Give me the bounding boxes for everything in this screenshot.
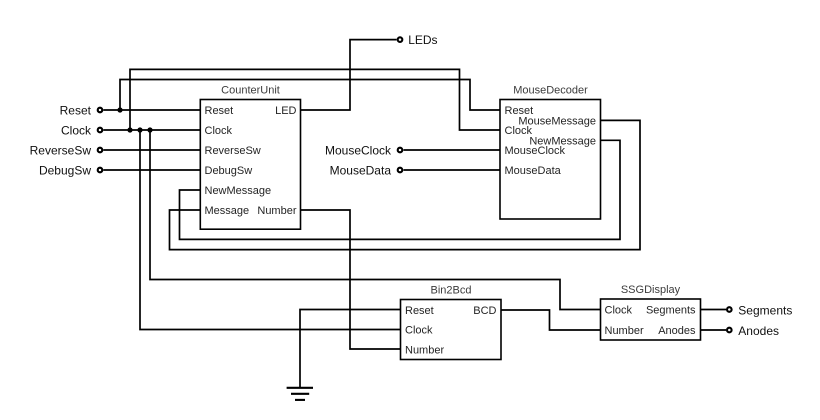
- port DebugSw: [39, 164, 102, 178]
- svg-text:Reset: Reset: [205, 105, 234, 117]
- wire Reset input to CounterUnit.Reset: [103, 109, 200, 111]
- svg-text:SSGDisplay: SSGDisplay: [621, 284, 681, 296]
- ground: [287, 388, 313, 400]
- svg-text:Clock: Clock: [61, 124, 92, 138]
- port MouseData: [330, 164, 403, 178]
- svg-text:Segments: Segments: [646, 305, 696, 317]
- node Clock junction 2: [137, 127, 142, 132]
- svg-text:DebugSw: DebugSw: [205, 165, 253, 177]
- port LEDs: [398, 33, 438, 47]
- port ReverseSw: [30, 144, 103, 158]
- wire MouseDecoder.MouseMessage to CounterUnit.Message: [170, 120, 641, 249]
- svg-text:Anodes: Anodes: [738, 324, 779, 338]
- svg-text:Anodes: Anodes: [658, 325, 696, 337]
- wire Clock to MouseDecoder.Clock: [130, 69, 500, 130]
- module MouseDecoder: [500, 85, 601, 220]
- wire MouseData input to MouseDecoder.MouseData: [404, 169, 501, 171]
- svg-text:CounterUnit: CounterUnit: [221, 85, 280, 97]
- node Clock junction 3: [147, 127, 152, 132]
- svg-text:ReverseSw: ReverseSw: [205, 145, 261, 157]
- svg-text:Number: Number: [405, 345, 444, 357]
- wire Reset to MouseDecoder.Reset: [120, 80, 500, 111]
- port Reset: [60, 104, 103, 118]
- svg-text:Segments: Segments: [738, 303, 792, 317]
- svg-text:LEDs: LEDs: [408, 33, 437, 47]
- wire Clock to Bin2Bcd.Clock: [140, 130, 401, 330]
- wire SSGDisplay.Anodes to Anodes output: [701, 329, 727, 331]
- svg-text:Bin2Bcd: Bin2Bcd: [431, 285, 472, 297]
- svg-text:Number: Number: [605, 325, 644, 337]
- svg-text:DebugSw: DebugSw: [39, 164, 91, 178]
- wire MouseClock input to MouseDecoder.MouseClock: [404, 149, 501, 151]
- port Anodes: [727, 324, 779, 338]
- svg-text:Reset: Reset: [405, 305, 434, 317]
- wire ReverseSw input to CounterUnit.ReverseSw: [103, 149, 200, 151]
- wire CounterUnit.Number to Bin2Bcd.Number: [301, 210, 401, 349]
- node Clock junction 1: [127, 127, 132, 132]
- svg-text:MouseDecoder: MouseDecoder: [513, 85, 588, 97]
- module CounterUnit: [200, 85, 300, 230]
- svg-text:Reset: Reset: [60, 104, 92, 118]
- wire Clock input to CounterUnit.Clock: [103, 129, 200, 131]
- wire SSGDisplay.Segments to Segments output: [701, 309, 727, 311]
- svg-text:Clock: Clock: [405, 325, 433, 337]
- svg-text:LED: LED: [275, 105, 296, 117]
- svg-text:MouseMessage: MouseMessage: [518, 115, 596, 127]
- svg-text:MouseClock: MouseClock: [325, 144, 392, 158]
- svg-text:ReverseSw: ReverseSw: [30, 144, 92, 158]
- svg-text:MouseData: MouseData: [505, 165, 562, 177]
- module Bin2Bcd: [401, 285, 502, 360]
- port Clock: [61, 124, 102, 138]
- svg-text:BCD: BCD: [473, 305, 496, 317]
- svg-text:NewMessage: NewMessage: [205, 185, 272, 197]
- svg-text:Clock: Clock: [205, 125, 233, 137]
- svg-text:Number: Number: [257, 205, 296, 217]
- wire MouseDecoder.NewMessage to CounterUnit.NewMessage: [180, 140, 621, 239]
- svg-text:Message: Message: [205, 205, 250, 217]
- wire ground to Bin2Bcd.Reset: [300, 310, 401, 388]
- wire Bin2Bcd.BCD to SSGDisplay.Number: [501, 310, 601, 330]
- port Segments: [727, 303, 792, 317]
- node Reset junction: [117, 107, 122, 112]
- wire DebugSw input to CounterUnit.DebugSw: [103, 169, 200, 171]
- svg-text:NewMessage: NewMessage: [529, 135, 596, 147]
- svg-text:Clock: Clock: [605, 305, 633, 317]
- module SSGDisplay: [601, 284, 701, 340]
- svg-text:MouseData: MouseData: [330, 164, 392, 178]
- wire Clock to SSGDisplay.Clock: [150, 130, 601, 310]
- port MouseClock: [325, 144, 402, 158]
- wire CounterUnit.LED to LEDs output: [301, 40, 397, 110]
